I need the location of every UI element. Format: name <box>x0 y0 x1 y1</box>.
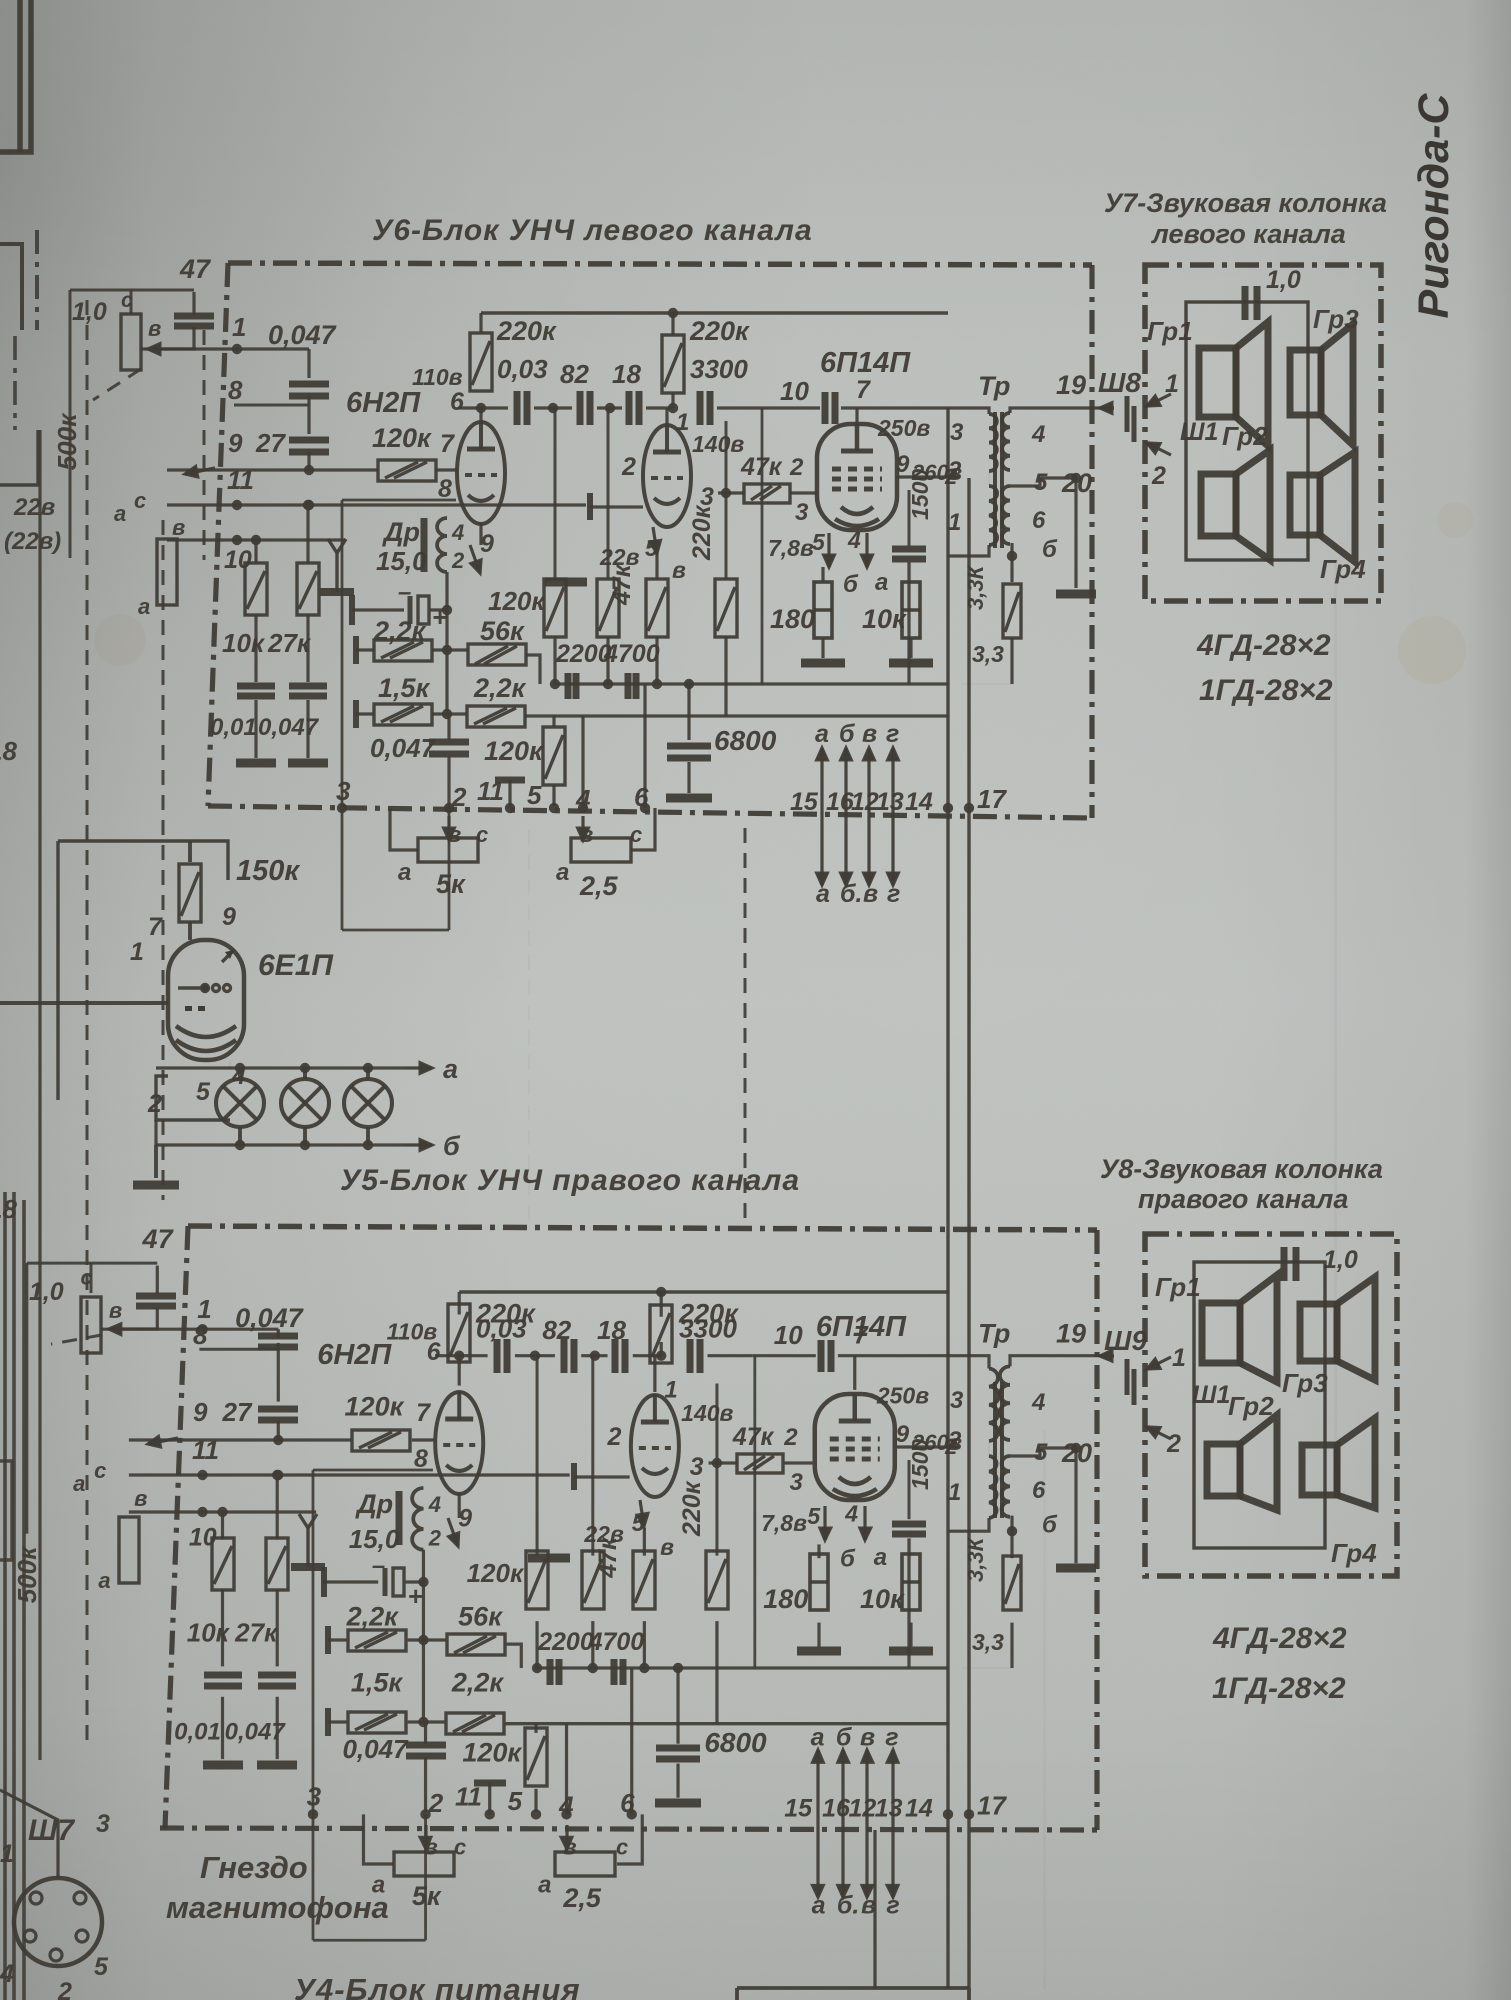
secondary winding upper <box>1000 1366 1010 1440</box>
resistor 3,3к <box>1003 584 1021 638</box>
wire <box>276 1589 279 1666</box>
resistor 220к vertical <box>715 579 737 637</box>
block border У7 <box>1145 265 1381 601</box>
svg-text:в: в <box>563 1835 576 1860</box>
wire box top <box>342 499 456 502</box>
wire stage box left <box>761 408 764 684</box>
svg-text:82: 82 <box>542 1315 571 1345</box>
svg-text:1ГД-28×2: 1ГД-28×2 <box>1199 674 1333 707</box>
junction <box>668 403 678 413</box>
wire input box left <box>25 1263 28 1534</box>
junction anode <box>476 403 486 413</box>
wire <box>660 1292 663 1317</box>
wire pin2 down <box>448 808 451 930</box>
wire cap47 top <box>192 292 195 315</box>
junction rail <box>656 1287 666 1297</box>
primary winding lower <box>989 1456 997 1518</box>
svg-text:в: в <box>172 515 185 540</box>
wire <box>447 714 450 740</box>
tube 6Е1П indicator <box>168 940 244 1060</box>
svg-text:2: 2 <box>1151 462 1166 490</box>
svg-text:4: 4 <box>428 1492 441 1517</box>
wire bus1 <box>535 1666 948 1669</box>
svg-text:2: 2 <box>789 454 804 481</box>
electrolytic capacitor 15,0 <box>418 596 429 624</box>
wire <box>447 756 450 806</box>
svg-text:2: 2 <box>451 548 465 573</box>
svg-text:0,047: 0,047 <box>268 320 338 350</box>
left vertical wire <box>38 430 41 1760</box>
wire <box>962 1667 1012 1669</box>
svg-text:Гр3: Гр3 <box>1313 304 1359 334</box>
wire <box>671 313 674 335</box>
wire <box>655 637 658 684</box>
resistor 10к div <box>245 563 267 615</box>
test point symbol <box>291 1514 325 1567</box>
triode V2 6Н2П-b <box>643 425 691 527</box>
resistor 27к div <box>266 1538 288 1590</box>
junction div2 <box>272 1470 282 1480</box>
junction <box>605 403 615 413</box>
junction <box>673 1663 683 1673</box>
svg-text:с: с <box>121 289 133 312</box>
block border У5 right <box>1094 1230 1099 1830</box>
wire <box>535 1621 538 1668</box>
speaker Гр3 <box>1290 324 1353 445</box>
lamp <box>344 1079 392 1127</box>
svg-text:2: 2 <box>1166 1430 1181 1458</box>
svg-text:Гнездо: Гнездо <box>200 1850 308 1885</box>
resistor 150к <box>179 864 201 922</box>
svg-text:9: 9 <box>193 1397 208 1427</box>
wire div <box>254 540 257 563</box>
wire cap47 <box>156 1308 159 1329</box>
signal arrow в (down) <box>862 1824 873 1897</box>
svg-text:0,03: 0,03 <box>497 354 548 384</box>
wire lamp <box>366 1068 370 1079</box>
svg-text:0,01: 0,01 <box>174 1719 221 1746</box>
pin junction <box>561 1809 571 1819</box>
svg-text:3,3К: 3,3К <box>963 1536 988 1582</box>
wire B+ rail <box>481 311 948 314</box>
svg-text:Гр1: Гр1 <box>1155 1272 1201 1302</box>
junction <box>442 709 452 719</box>
capacitor 0,047 b <box>429 742 469 754</box>
svg-text:19: 19 <box>1056 370 1086 400</box>
triode V1 6Н2П-a <box>457 422 505 524</box>
wire box left <box>341 500 344 930</box>
svg-text:4ГД-28×2: 4ГД-28×2 <box>1196 629 1331 662</box>
secondary winding upper <box>1002 413 1010 470</box>
dashed vertical left2 <box>162 520 165 1200</box>
svg-text:3,3: 3,3 <box>972 1629 1004 1655</box>
svg-text:г: г <box>885 1723 898 1751</box>
wire <box>895 1446 897 1448</box>
signal arrow г <box>888 748 899 816</box>
svg-text:3: 3 <box>950 419 964 446</box>
connector arrow 1 <box>1147 1357 1171 1369</box>
wire pin4 <box>581 716 584 808</box>
grid terminal bar <box>571 1463 577 1490</box>
wire bus2 <box>506 1722 949 1725</box>
potentiometer 500к volume <box>157 539 177 605</box>
wire 19 <box>1010 1356 1100 1367</box>
svg-text:У6-Блок УНЧ левого канала: У6-Блок УНЧ левого канала <box>372 214 813 247</box>
capacitor 3300 <box>690 1339 700 1373</box>
terminal bar pin 11 <box>495 777 525 784</box>
junction <box>532 1663 542 1673</box>
wire pin6 <box>643 684 646 808</box>
resistor 1,5к <box>374 704 432 725</box>
wire <box>277 1343 280 1402</box>
svg-text:27: 27 <box>255 428 286 458</box>
resistor 220к anode V1 <box>448 1304 470 1362</box>
svg-text:12: 12 <box>848 1795 876 1823</box>
junction <box>304 465 314 475</box>
resistor cathode <box>633 1551 655 1609</box>
resistor 56к <box>447 1634 505 1655</box>
svg-text:17: 17 <box>977 1790 1007 1820</box>
svg-text:250в: 250в <box>877 415 930 441</box>
svg-text:5к: 5к <box>436 869 466 899</box>
resistor 180 <box>814 582 832 638</box>
wire <box>534 1724 537 1733</box>
pin junction <box>420 1809 430 1819</box>
svg-text:Ригонда-С: Ригонда-С <box>1410 93 1458 319</box>
wire anode V2 <box>665 408 668 425</box>
connector bars <box>1127 396 1134 442</box>
wire <box>430 608 447 611</box>
capacitor 1,0 crossover <box>1245 286 1257 320</box>
capacitor 3300 <box>700 391 710 425</box>
svg-text:3: 3 <box>690 1453 704 1481</box>
block border У6 top <box>228 263 1092 265</box>
junction <box>273 1435 283 1445</box>
svg-text:0,01: 0,01 <box>210 714 257 741</box>
capacitor 82 <box>564 1339 574 1373</box>
wire cap1500-10к <box>910 555 912 582</box>
svg-text:10к: 10к <box>222 628 266 658</box>
capacitor 0,047 div <box>258 1675 296 1686</box>
svg-text:10к: 10к <box>862 604 907 634</box>
wire lamp rail b <box>156 1143 405 1146</box>
svg-text:0,047: 0,047 <box>342 1734 409 1764</box>
wire <box>254 700 257 758</box>
pin junction <box>640 803 650 813</box>
svg-text:в: в <box>134 1486 147 1511</box>
junction <box>712 1458 722 1468</box>
block border У8 <box>1145 1234 1397 1576</box>
wire to 6Е1П grid <box>0 1001 168 1005</box>
svg-text:22в: 22в <box>599 544 640 570</box>
wire 11-row <box>129 1473 570 1476</box>
junction 20 <box>1071 473 1081 483</box>
capacitor 0,03 <box>517 391 527 425</box>
wire <box>277 1329 280 1338</box>
svg-text:Гр1: Гр1 <box>1147 316 1193 346</box>
wire <box>947 1667 949 1669</box>
lamp <box>216 1079 264 1127</box>
svg-text:250в: 250в <box>876 1383 929 1409</box>
svg-text:правого канала: правого канала <box>1138 1184 1348 1214</box>
junction <box>273 1470 283 1480</box>
speaker Гр1 <box>1199 322 1268 446</box>
cathode arrow V2 <box>650 527 660 553</box>
terminal <box>325 1626 331 1654</box>
svg-text:120к: 120к <box>488 586 546 616</box>
svg-text:1,0: 1,0 <box>1323 1246 1358 1274</box>
resistor 220к anode V2 <box>662 335 684 393</box>
wire box top <box>313 1469 433 1472</box>
resistor 47к grid <box>744 484 790 503</box>
wire <box>607 408 610 579</box>
wire <box>817 1623 820 1647</box>
wire <box>328 1720 347 1723</box>
grid terminal bar <box>587 493 593 520</box>
potentiometer 5к <box>394 1852 454 1876</box>
potentiometer 1,0 tone <box>81 1297 101 1353</box>
choke winding <box>437 518 447 572</box>
wire <box>356 712 374 715</box>
wire <box>715 1383 718 1555</box>
capacitor 47 <box>174 316 214 326</box>
svg-text:а: а <box>811 1723 825 1751</box>
signal arrow г (down) <box>887 1824 898 1897</box>
svg-text:6Н2П: 6Н2П <box>317 1339 392 1371</box>
svg-text:27к: 27к <box>234 1618 279 1648</box>
signal arrow а <box>813 1750 824 1824</box>
wire node6 <box>435 1354 488 1357</box>
resistor 220к anode V1 <box>470 333 492 391</box>
wire 19 <box>1010 408 1100 413</box>
svg-text:0,047: 0,047 <box>370 733 437 763</box>
svg-text:в: в <box>109 1298 122 1323</box>
junction <box>550 679 560 689</box>
junction <box>603 679 613 689</box>
svg-text:0,047: 0,047 <box>235 1303 305 1333</box>
wire pot right <box>631 808 655 850</box>
resistor 47к grid <box>737 1454 783 1473</box>
svg-text:2: 2 <box>57 1978 72 2000</box>
wire <box>479 313 482 333</box>
ground 0,047 <box>288 759 328 768</box>
wire <box>229 1060 231 1068</box>
junction <box>442 645 452 655</box>
resistor 180 <box>810 1554 828 1610</box>
pin junction <box>627 1809 637 1819</box>
svg-text:2,2к: 2,2к <box>451 1667 505 1697</box>
wire <box>328 1638 347 1641</box>
wire <box>526 655 540 684</box>
svg-text:120к: 120к <box>462 1737 522 1767</box>
junction <box>197 1507 207 1517</box>
wire <box>687 762 690 793</box>
terminal <box>353 636 359 664</box>
long wire 17b <box>967 478 970 1988</box>
svg-text:7: 7 <box>416 1399 431 1427</box>
capacitor 18 <box>629 391 639 425</box>
wire primary bottom <box>948 545 989 556</box>
junction 17b <box>964 1809 974 1819</box>
capacitor 1500 <box>892 549 926 559</box>
svg-text:15,0: 15,0 <box>349 1524 400 1554</box>
signal arrow в (down) <box>864 816 875 885</box>
svg-text:120к: 120к <box>345 1391 405 1421</box>
capacitor 6800 <box>656 1748 700 1759</box>
svg-text:500к: 500к <box>52 412 82 470</box>
signal arrow а (down) <box>813 1824 824 1897</box>
wire <box>597 406 622 409</box>
junction <box>232 535 242 545</box>
svg-text:–: – <box>398 579 411 606</box>
arrow wiper <box>185 467 215 477</box>
svg-text:в: в <box>672 557 686 583</box>
svg-text:220к: 220к <box>678 1480 706 1537</box>
svg-text:6: 6 <box>1032 507 1046 534</box>
svg-text:Гр4: Гр4 <box>1331 1538 1377 1568</box>
resistor 120к grid <box>378 460 436 481</box>
wire <box>352 608 404 611</box>
svg-text:1ГД-28×2: 1ГД-28×2 <box>1212 1672 1346 1705</box>
svg-text:4ГД-28×2: 4ГД-28×2 <box>1212 1622 1347 1655</box>
svg-text:с: с <box>94 1458 106 1483</box>
wire <box>307 349 310 378</box>
wire row7 <box>129 1510 316 1513</box>
svg-text:4700: 4700 <box>588 1628 645 1656</box>
svg-text:6: 6 <box>427 1338 442 1366</box>
wire <box>671 393 674 408</box>
signal arrow г (down) <box>888 816 899 885</box>
speaker Гр3 b <box>1300 1277 1375 1380</box>
paper grain filter def <box>0 0 1 1</box>
wire stage box left <box>753 1356 756 1668</box>
electrolytic capacitor 15,0 <box>393 1568 404 1596</box>
dashed vertical 2 <box>528 830 530 1225</box>
wire to grid res <box>309 468 378 471</box>
resistor 120к vertical <box>526 1551 548 1609</box>
junction 17b <box>964 803 974 813</box>
junction b <box>1007 1526 1017 1536</box>
svg-text:б: б <box>443 1131 461 1161</box>
svg-text:5: 5 <box>196 1078 211 1106</box>
svg-text:–: – <box>372 1553 385 1580</box>
svg-text:Тр: Тр <box>978 371 1010 401</box>
capacitor 0,047 b <box>406 1745 446 1756</box>
wire cathode 6Е1П <box>156 1076 230 1120</box>
wire <box>909 638 912 658</box>
dash-dot stub top left <box>35 230 39 330</box>
svg-text:150к: 150к <box>236 855 300 887</box>
dashed vertical left <box>86 300 89 1745</box>
capacitor 4700 <box>614 1659 623 1685</box>
svg-text:в: в <box>863 880 878 908</box>
wire <box>790 491 817 494</box>
svg-text:6Е1П: 6Е1П <box>258 949 334 982</box>
svg-text:140в: 140в <box>681 1400 733 1426</box>
pin junction <box>337 803 347 813</box>
wire cap1500-10к <box>910 1530 912 1558</box>
junction pin1 <box>197 1324 207 1334</box>
svg-text:3: 3 <box>96 1810 110 1838</box>
svg-text:Ш9: Ш9 <box>1104 1325 1147 1356</box>
block border У6 right <box>1089 265 1094 818</box>
wire pot left <box>363 1814 392 1864</box>
speaker wiring <box>1194 1262 1325 1548</box>
svg-text:б.: б. <box>840 880 862 908</box>
resistor 2,2к b <box>446 1713 504 1734</box>
signal arrow в <box>864 748 875 816</box>
Ш7 pins <box>24 1892 88 1961</box>
capacitor 27 <box>258 1409 298 1420</box>
choke winding <box>412 1488 423 1550</box>
junction 17a <box>943 1809 953 1819</box>
junction <box>300 1140 310 1150</box>
wire pin6 <box>630 1668 633 1814</box>
svg-text:5: 5 <box>94 1953 109 1981</box>
junction <box>684 679 694 689</box>
junction div <box>251 535 261 545</box>
wire <box>907 1538 910 1668</box>
svg-text:Ш1: Ш1 <box>1192 1381 1230 1409</box>
block border У6 bottom <box>208 806 1092 818</box>
ground 6Е1П <box>133 1181 179 1190</box>
svg-text:13: 13 <box>875 1795 903 1823</box>
resistor 120к vertical <box>544 579 566 637</box>
arrow 19 <box>1100 403 1114 414</box>
wire 20 <box>1010 1448 1076 1456</box>
wire anode pentode <box>855 408 858 424</box>
capacitor 47 <box>136 1296 176 1306</box>
svg-text:4: 4 <box>1031 1389 1045 1416</box>
wire lamp2 <box>238 1127 242 1145</box>
svg-text:2,2к: 2,2к <box>473 673 527 703</box>
svg-text:500к: 500к <box>12 1545 42 1603</box>
signal arrow б (down) <box>838 1824 849 1897</box>
wire primary bottom <box>948 1518 989 1531</box>
pentode 6П14П <box>817 424 897 530</box>
wire <box>424 1722 427 1744</box>
svg-text:18: 18 <box>597 1315 626 1345</box>
capacitor 0,047 input <box>258 1336 298 1347</box>
svg-text:3: 3 <box>795 499 809 526</box>
svg-text:1,0: 1,0 <box>1266 266 1301 294</box>
svg-text:2: 2 <box>783 1424 798 1451</box>
capacitor 27 <box>289 440 329 452</box>
wire <box>817 1544 820 1558</box>
svg-text:220к: 220к <box>496 316 557 346</box>
electrolytic plate <box>408 596 413 624</box>
svg-text:7,8в: 7,8в <box>761 1510 807 1536</box>
pin junction <box>505 803 515 813</box>
block border У5 bottom <box>160 1828 1097 1830</box>
svg-text:3,3К: 3,3К <box>963 564 988 610</box>
wire B+ rail <box>459 1290 948 1293</box>
wire screen <box>897 1445 958 1448</box>
arrow 19 <box>1100 1350 1114 1361</box>
resistor 10к <box>902 1554 920 1610</box>
lamp <box>281 1079 329 1127</box>
svg-text:в: в <box>424 1835 437 1860</box>
svg-text:б: б <box>839 720 856 748</box>
svg-text:0,03: 0,03 <box>476 1314 527 1344</box>
svg-text:4: 4 <box>844 1501 858 1527</box>
junction <box>656 1350 666 1360</box>
svg-text:а: а <box>398 859 411 886</box>
dashed vertical mid <box>744 828 747 1228</box>
svg-text:Гр3: Гр3 <box>1282 1368 1328 1398</box>
svg-text:а: а <box>538 1872 551 1899</box>
ground 6800 <box>655 1799 701 1808</box>
